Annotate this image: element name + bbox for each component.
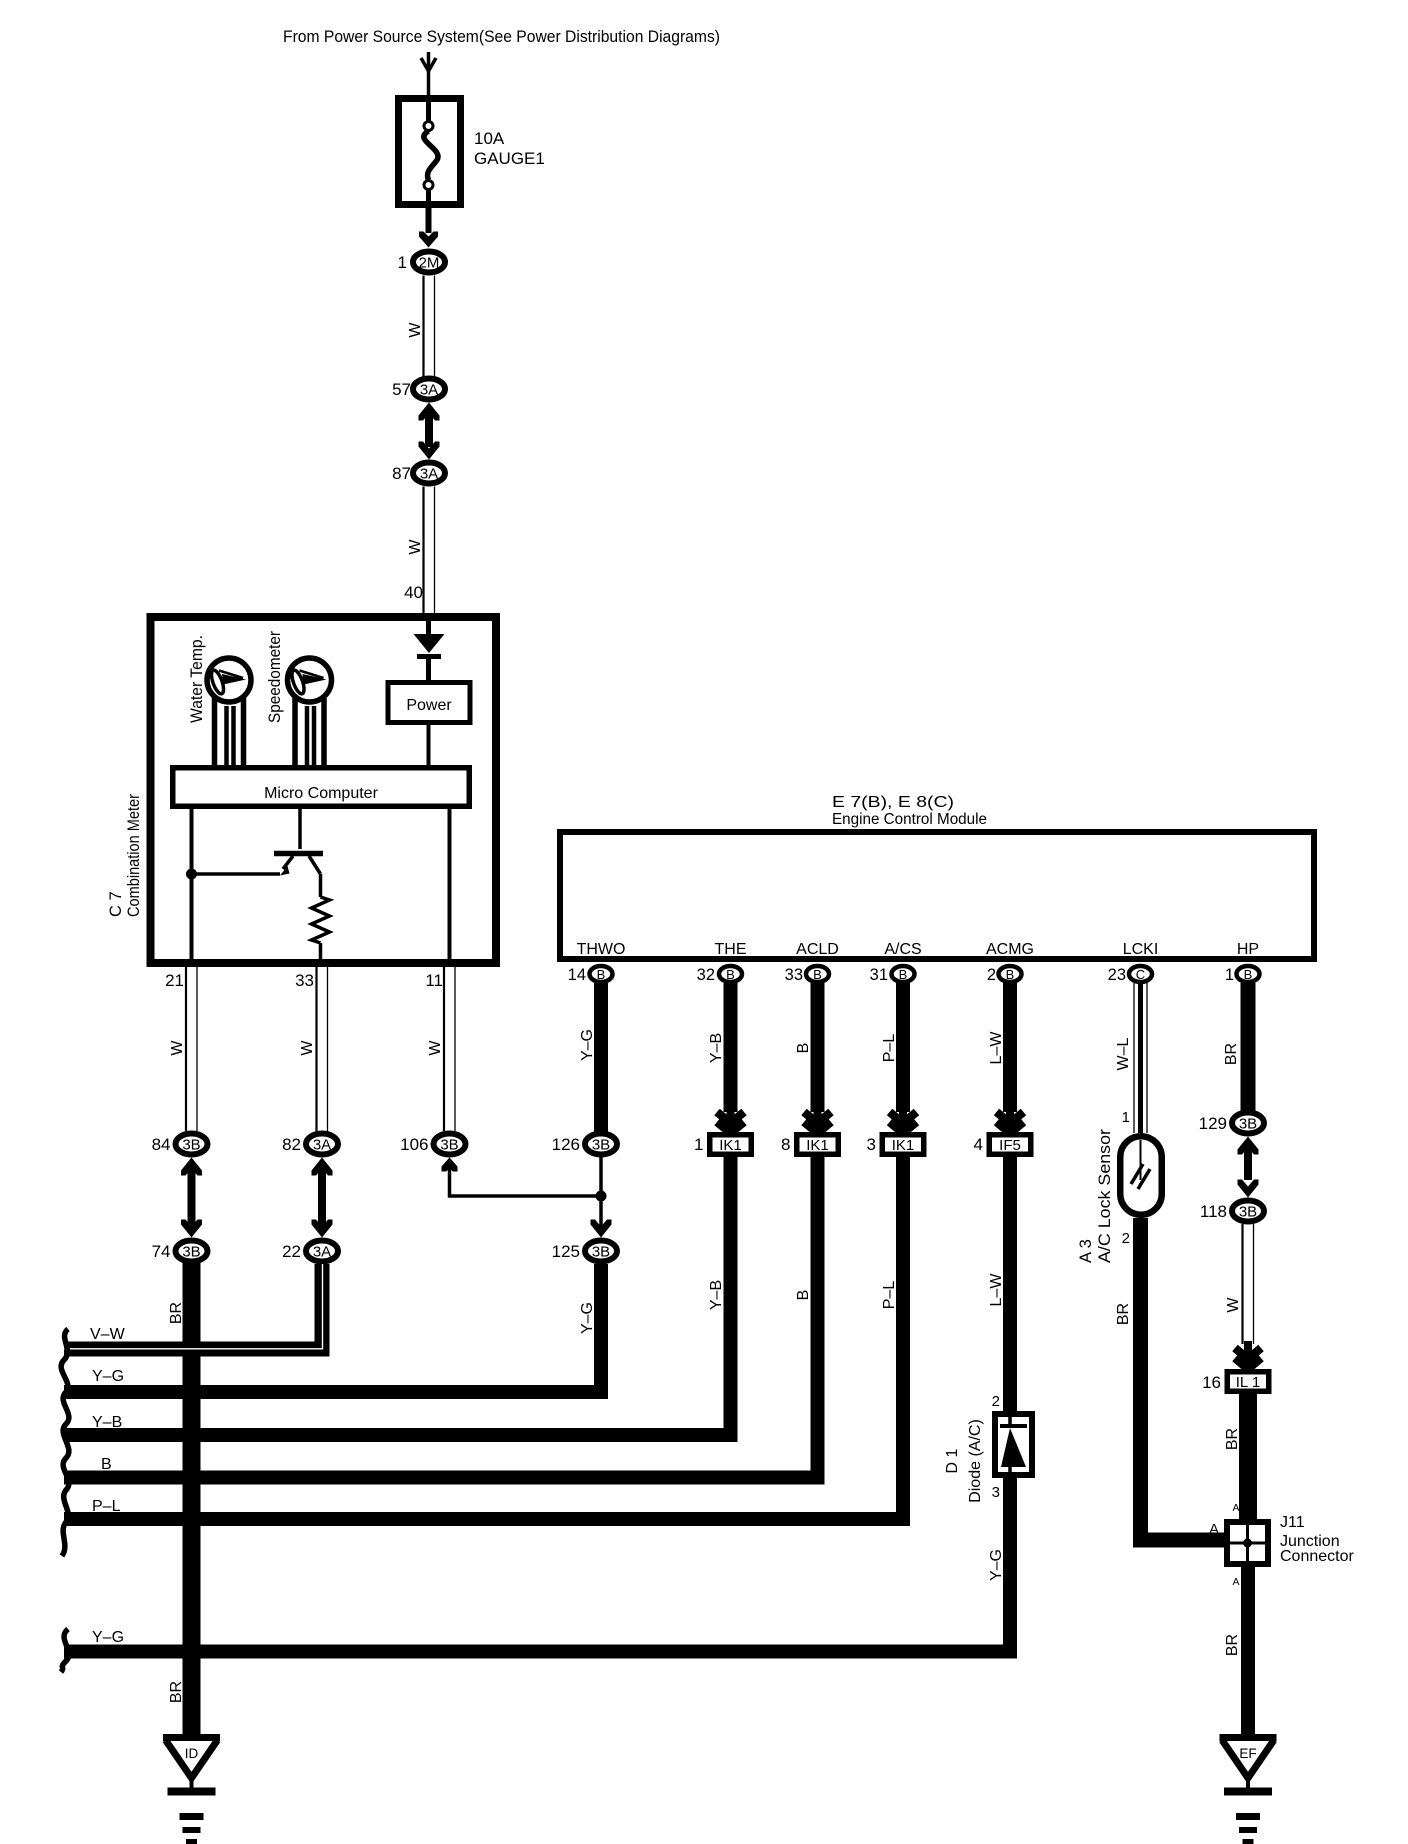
svg-text:3B: 3B: [182, 1137, 200, 1154]
svg-text:3A: 3A: [420, 382, 438, 399]
svg-text:BR: BR: [1115, 1303, 1132, 1325]
A/C lock sensor A3: [1120, 1136, 1162, 1215]
svg-text:A: A: [1232, 1502, 1239, 1514]
diode D1 box: [995, 1414, 1032, 1475]
svg-text:C 7: C 7: [107, 891, 125, 917]
svg-text:ACMG: ACMG: [986, 941, 1034, 958]
svg-text:Connector: Connector: [1280, 1548, 1354, 1565]
svg-text:40: 40: [404, 583, 423, 602]
wire BR IL1 to J11: [1239, 1394, 1257, 1519]
bus P-L: [64, 1157, 903, 1519]
svg-text:IF5: IF5: [999, 1137, 1021, 1154]
ECM pin 23(C): [1129, 966, 1152, 982]
svg-text:126: 126: [552, 1135, 580, 1154]
svg-text:2: 2: [1122, 1230, 1130, 1247]
svg-text:P–L: P–L: [881, 1034, 898, 1063]
connector 125-3B: [585, 1241, 617, 1262]
wire ACLD / connector 8-IK1 / B: [811, 983, 825, 1112]
fuse F1 10A GAUGE1: [399, 99, 461, 205]
svg-text:Speedometer: Speedometer: [265, 631, 284, 723]
svg-text:16: 16: [1202, 1373, 1221, 1392]
svg-text:IK1: IK1: [806, 1137, 829, 1154]
svg-text:3B: 3B: [182, 1244, 200, 1261]
connector 126-3B: [585, 1134, 617, 1155]
wire THWO Y-G down: [594, 983, 608, 1133]
svg-text:L–W: L–W: [988, 1273, 1005, 1307]
svg-text:3B: 3B: [592, 1137, 610, 1154]
svg-text:31: 31: [870, 966, 888, 984]
svg-text:33: 33: [785, 966, 803, 984]
svg-text:32: 32: [697, 966, 715, 984]
bus B: [64, 1157, 818, 1478]
svg-text:57: 57: [392, 380, 411, 399]
svg-text:W: W: [407, 539, 424, 555]
svg-text:J11: J11: [1280, 1514, 1305, 1531]
svg-text:E 7(B), E 8(C): E 7(B), E 8(C): [832, 794, 954, 811]
svg-text:ID: ID: [185, 1746, 199, 1761]
connectors 82-3A / 22-3A: [306, 1134, 338, 1155]
wire 3A to 3A: [425, 410, 433, 447]
wire W 2M to 3A: [422, 276, 424, 378]
connector 129-3B: [1232, 1113, 1264, 1134]
svg-text:Y–G: Y–G: [92, 1629, 124, 1646]
wire W pin21 down: [185, 966, 187, 1131]
svg-text:LCKI: LCKI: [1123, 941, 1159, 958]
svg-text:W: W: [169, 1040, 186, 1056]
svg-text:11: 11: [425, 971, 443, 990]
wire Y-G from 125-3B: [64, 1264, 601, 1392]
wire BR from sensor to J11: [1141, 1218, 1225, 1540]
arrow up into 3A-57: [419, 403, 440, 421]
bus Y-G lower: [64, 1644, 1010, 1652]
svg-text:2: 2: [992, 1393, 1000, 1410]
ECM pin 2(B): [999, 966, 1022, 982]
speedometer gauge: [288, 658, 332, 702]
diode D1 symbol: [1008, 1414, 1012, 1426]
wire V-W from 22-3A: [64, 1264, 322, 1349]
svg-text:1: 1: [1225, 966, 1234, 984]
svg-text:IK1: IK1: [719, 1137, 742, 1154]
wire pin40 into meter: [426, 613, 431, 634]
svg-text:BR: BR: [1224, 1634, 1241, 1656]
svg-text:1: 1: [398, 253, 407, 272]
svg-text:THE: THE: [715, 941, 747, 958]
svg-text:HP: HP: [1237, 941, 1259, 958]
engine control module box: [560, 832, 1314, 959]
svg-text:BR: BR: [1224, 1428, 1241, 1450]
svg-text:2M: 2M: [419, 255, 440, 272]
svg-text:W: W: [407, 322, 424, 338]
svg-text:W: W: [427, 1040, 444, 1056]
svg-text:L–W: L–W: [988, 1031, 1005, 1065]
svg-text:Y–B: Y–B: [708, 1280, 725, 1310]
wire MC to pin 11: [448, 809, 452, 963]
svg-text:BR: BR: [168, 1302, 185, 1324]
water temp gauge: [207, 658, 251, 702]
connector 118-3B: [1232, 1201, 1264, 1222]
ECM pin 31(B): [892, 966, 915, 982]
connectors 84-3B / 74-3B: [176, 1134, 208, 1155]
wire W 3A to meter pin 40: [422, 487, 424, 614]
junction dot: [186, 869, 197, 880]
connector 3A pin 87: [413, 463, 445, 484]
arrow down into 125-3B: [591, 1220, 612, 1238]
svg-text:Y–G: Y–G: [579, 1029, 596, 1061]
svg-text:Y–G: Y–G: [579, 1302, 596, 1334]
svg-text:W–L: W–L: [1115, 1037, 1132, 1070]
svg-text:14: 14: [568, 966, 586, 984]
svg-text:GAUGE1: GAUGE1: [474, 149, 545, 168]
svg-text:Power: Power: [406, 697, 452, 714]
arrow up into 106-3B: [442, 1158, 458, 1172]
svg-text:B: B: [1006, 967, 1015, 982]
svg-text:B: B: [597, 967, 606, 982]
svg-text:THWO: THWO: [577, 941, 626, 958]
svg-text:2: 2: [987, 966, 996, 984]
svg-text:P–L: P–L: [92, 1498, 121, 1515]
svg-text:23: 23: [1108, 966, 1126, 984]
ground EF: [1220, 1734, 1277, 1741]
svg-text:Combination Meter: Combination Meter: [125, 794, 143, 917]
wire 129 to 118: [1244, 1144, 1252, 1180]
svg-text:From Power Source System(See P: From Power Source System(See Power Distr…: [283, 27, 720, 46]
svg-text:4: 4: [974, 1135, 983, 1154]
arrow into IL1: [1244, 1341, 1252, 1355]
svg-text:W: W: [1225, 1297, 1242, 1313]
svg-text:3B: 3B: [440, 1137, 458, 1154]
wire A/CS / connector 3-IK1 / P-L: [896, 983, 910, 1112]
wire power to micro computer: [427, 725, 431, 765]
wire MC to pin 21: [190, 809, 194, 963]
svg-text:A/C Lock Sensor: A/C Lock Sensor: [1096, 1128, 1114, 1263]
link 126 to 125: [599, 1157, 603, 1231]
micro computer box: [173, 768, 470, 807]
svg-text:V–W: V–W: [90, 1326, 126, 1343]
svg-text:BR: BR: [1223, 1043, 1240, 1065]
svg-text:IK1: IK1: [892, 1137, 915, 1154]
arrow down into 118-3B: [1238, 1180, 1259, 1198]
junction dot: [596, 1191, 607, 1202]
wire W pin11 down: [443, 966, 445, 1131]
connector 2M pin 1: [413, 252, 445, 273]
wire base: [192, 872, 281, 876]
svg-text:B: B: [795, 1043, 812, 1054]
svg-text:1: 1: [1122, 1109, 1130, 1126]
svg-text:10A: 10A: [474, 129, 505, 148]
power supply box: [388, 683, 470, 723]
svg-text:P–L: P–L: [881, 1281, 898, 1310]
ECM pin 14(B): [590, 966, 613, 982]
svg-text:B: B: [101, 1456, 112, 1473]
svg-text:3B: 3B: [1239, 1116, 1257, 1133]
connector 3A pin 57: [413, 379, 445, 400]
wire from power source with entry arrowhead: [427, 52, 431, 95]
svg-text:3A: 3A: [420, 466, 438, 483]
svg-text:125: 125: [552, 1242, 580, 1261]
svg-text:22: 22: [282, 1242, 301, 1261]
svg-text:129: 129: [1199, 1114, 1227, 1133]
svg-text:B: B: [795, 1290, 812, 1301]
transistor Q1: [298, 809, 302, 849]
wire BR J11 to ground: [1241, 1567, 1255, 1734]
svg-text:A 3: A 3: [1077, 1239, 1095, 1263]
svg-text:IL 1: IL 1: [1236, 1374, 1260, 1391]
svg-text:118: 118: [1200, 1202, 1227, 1221]
svg-text:Engine Control Module: Engine Control Module: [832, 811, 987, 828]
svg-text:B: B: [813, 967, 822, 982]
svg-text:Micro Computer: Micro Computer: [264, 785, 378, 802]
wire fuse to connector 2M: [426, 208, 432, 233]
svg-text:33: 33: [295, 971, 314, 990]
ground ID: [163, 1734, 220, 1741]
wire ACMG / connector 4-IF5 / L-W: [1003, 983, 1017, 1112]
svg-text:W: W: [299, 1040, 316, 1056]
svg-text:106: 106: [400, 1135, 428, 1154]
svg-text:D 1: D 1: [944, 1448, 961, 1473]
svg-text:3A: 3A: [313, 1137, 331, 1154]
diode in meter: [414, 634, 445, 653]
bus break squiggle lower: [61, 1629, 69, 1672]
connector 106-3B: [434, 1134, 466, 1155]
bus break squiggle: [61, 1329, 69, 1556]
svg-text:C: C: [1136, 967, 1145, 982]
connector 16-IL1: [1227, 1372, 1269, 1392]
svg-text:74: 74: [152, 1242, 171, 1261]
wire W pin33 down: [315, 966, 317, 1131]
combination meter C7 box: [151, 617, 497, 963]
svg-text:3A: 3A: [313, 1244, 331, 1261]
svg-text:Y–G: Y–G: [988, 1549, 1005, 1581]
arrow into 2M: [419, 232, 438, 248]
svg-text:Y–B: Y–B: [708, 1033, 725, 1063]
arrow down into 3A-87: [419, 442, 440, 460]
svg-text:8: 8: [781, 1135, 790, 1154]
wire W 118 to IL1: [1241, 1224, 1243, 1344]
svg-text:3B: 3B: [1239, 1204, 1257, 1221]
svg-text:B: B: [1244, 967, 1253, 982]
svg-text:Y–G: Y–G: [92, 1368, 124, 1385]
svg-text:EF: EF: [1239, 1746, 1256, 1761]
svg-text:B: B: [899, 967, 908, 982]
svg-text:B: B: [726, 967, 735, 982]
svg-text:87: 87: [392, 464, 411, 483]
svg-text:BR: BR: [168, 1681, 185, 1703]
svg-text:ACLD: ACLD: [796, 941, 839, 958]
svg-text:3: 3: [992, 1484, 1000, 1501]
svg-text:Diode (A/C): Diode (A/C): [967, 1419, 984, 1503]
resistor R1: [312, 897, 330, 943]
svg-text:A: A: [1232, 1576, 1239, 1588]
link wire 106 to 126-125: [450, 1168, 602, 1196]
arrow up into 129-3B: [1238, 1137, 1259, 1155]
svg-text:21: 21: [165, 971, 184, 990]
svg-text:A: A: [1209, 1521, 1219, 1538]
svg-text:Water Temp.: Water Temp.: [187, 635, 206, 723]
ECM pin 1(B): [1237, 966, 1260, 982]
svg-text:A/CS: A/CS: [884, 941, 921, 958]
svg-text:82: 82: [282, 1135, 301, 1154]
wire W-L from LCKI: [1133, 983, 1135, 1133]
ECM pin 32(B): [719, 966, 742, 982]
wire THE / connector 1-IK1 / Y-B: [724, 983, 738, 1112]
wire BR from HP: [1241, 983, 1256, 1111]
wire Y-G below diode: [1003, 1478, 1017, 1652]
bus Y-B: [64, 1157, 731, 1435]
svg-text:Y–B: Y–B: [92, 1414, 122, 1431]
svg-text:3B: 3B: [592, 1244, 610, 1261]
svg-text:3: 3: [867, 1135, 876, 1154]
svg-text:1: 1: [694, 1135, 703, 1154]
ECM pin 33(B): [806, 966, 829, 982]
wire BR trunk from 74-3B: [183, 1262, 201, 1734]
junction connector J11: [1227, 1522, 1268, 1564]
svg-text:84: 84: [152, 1135, 171, 1154]
